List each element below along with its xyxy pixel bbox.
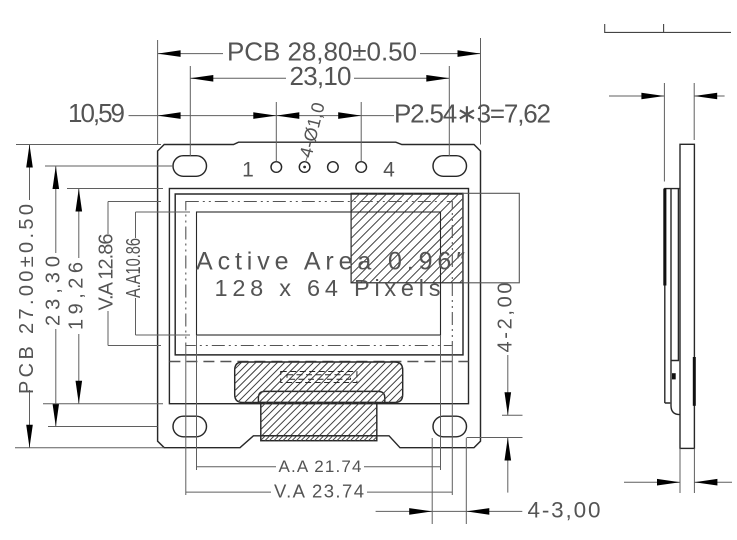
extension lines A.A sides down: [196, 335, 198, 470]
mounting hole top-left: [173, 156, 207, 177]
flex tab: [261, 403, 377, 436]
svg-text:P2.54∗3=7,62: P2.54∗3=7,62: [394, 98, 551, 128]
svg-text:10,59: 10,59: [68, 98, 125, 128]
svg-text:23,10: 23,10: [290, 61, 352, 91]
flex strip dense hatch: [261, 436, 377, 441]
dimension 23,30 (left, vertical): [43, 166, 65, 427]
svg-text:V.A 12.86: V.A 12.86: [96, 234, 118, 311]
top view bracket line: [605, 24, 731, 32]
leader and label 4-dia1,0: [296, 100, 329, 162]
display frame outer: [169, 189, 468, 404]
dimension PCB 27.00±0.50 (left, vertical): [16, 145, 38, 448]
dimension PCB 28,80±0.50: [158, 36, 481, 66]
flex stiffener inner dashed rect: [287, 375, 351, 380]
flex stiffener dashed rect: [281, 372, 357, 383]
extension line 19,26 top: [67, 188, 163, 190]
side polarizer black strip: [663, 189, 666, 286]
extension line PCB left edge up: [157, 40, 159, 145]
dimension 19,26 (left, vertical): [66, 189, 88, 404]
flex hatch lines: [235, 362, 403, 436]
side bottom dimension: [624, 448, 732, 493]
svg-text:23,30: 23,30: [43, 256, 65, 326]
extension line 23,30 bottom: [48, 426, 158, 428]
pin 3 pad: [328, 162, 339, 173]
dimension A.A10.86 (vertical label): [123, 212, 190, 335]
side component black dot: [672, 373, 676, 379]
dimension 4-3,00 (bottom right): [376, 438, 601, 524]
extension line PCB right edge up: [480, 38, 482, 145]
extension line pin1 center: [275, 102, 277, 162]
svg-text:4: 4: [383, 159, 395, 182]
side flex black strip: [693, 357, 696, 406]
dimension 4-2,00 (right, vertical): [467, 283, 523, 493]
svg-text:V.A 23.74: V.A 23.74: [274, 481, 364, 502]
active area rectangle: [197, 212, 441, 335]
dimension V.A 12.86 (vertical label): [96, 202, 162, 346]
pin 1 pad: [271, 162, 282, 173]
dimension 23,10: [190, 61, 449, 91]
extension lines V.A sides down: [185, 346, 187, 496]
side flex wrap line: [671, 189, 680, 415]
flex connector lower fold: [258, 391, 384, 402]
flex connector upper fold: [235, 362, 403, 403]
extension line 19,26 bottom: [43, 403, 163, 405]
svg-text:1: 1: [242, 159, 254, 182]
display glass outline: [175, 194, 463, 355]
mounting hole bottom-left: [173, 416, 207, 437]
dimension A.A 21.74: [197, 457, 441, 476]
driver zone hatched area: [351, 193, 463, 282]
pin 4 pad: [356, 162, 367, 173]
extension line pin4 center: [360, 102, 362, 162]
mounting hole bottom-right: [433, 416, 467, 437]
svg-text:A.A10.86: A.A10.86: [123, 238, 145, 298]
side PCB profile: [680, 144, 694, 448]
hidden edge dashed line: [169, 361, 468, 363]
extension line 23,30 top: [45, 165, 173, 167]
pin 2 pad: [299, 162, 310, 173]
dimension V.A 23.74: [186, 481, 453, 502]
flex tab bottom wrap strip: [261, 436, 377, 441]
side thickness dimension (top): [609, 83, 725, 182]
extension line PCB 27 top: [16, 144, 161, 146]
extension line right hole center up: [448, 66, 450, 156]
dimension 10,59: [68, 98, 276, 128]
extension lines PCB 27 bottom: [15, 447, 164, 449]
pin 2 center dot: [303, 166, 306, 169]
viewing area dash-dot rectangle: [186, 202, 453, 346]
svg-text:19,26: 19,26: [66, 262, 88, 330]
driver zone hatch lines: [351, 193, 463, 282]
side inner line: [671, 189, 678, 361]
extension line left hole center up: [189, 66, 191, 156]
mounting hole top-right: [433, 156, 467, 177]
dimension P2.54*3=7,62: [276, 98, 551, 128]
detail box extending right: [463, 193, 519, 282]
PCB outline: [158, 142, 481, 448]
svg-text:A.A 21.74: A.A 21.74: [279, 457, 362, 476]
side glass profile: [665, 189, 680, 403]
svg-text:Active Area 0.96″: Active Area 0.96″: [196, 248, 465, 276]
